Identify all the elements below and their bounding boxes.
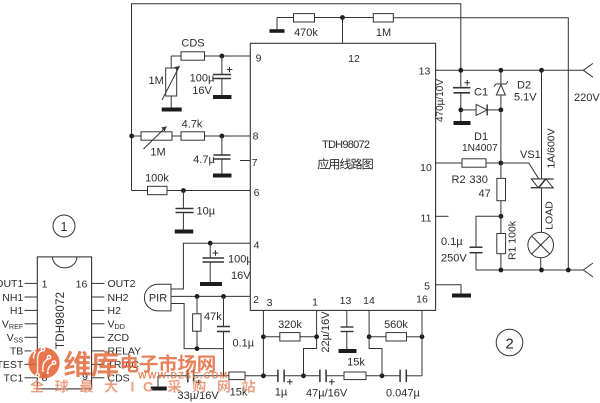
wire rail segment 4 [284, 375, 319, 377]
wire D2 to R2 node [500, 110, 502, 163]
node 0.1u top [221, 294, 226, 299]
svg-text:1A/600V: 1A/600V [546, 128, 558, 168]
potentiometer 1M lower [132, 127, 173, 159]
svg-text:0.1µ: 0.1µ [441, 236, 463, 248]
svg-text:VS1: VS1 [520, 149, 541, 161]
svg-text:6: 6 [254, 187, 260, 199]
svg-text:PIR: PIR [149, 293, 167, 305]
svg-text:330: 330 [470, 174, 488, 186]
node pin1 320k [314, 334, 319, 339]
wire pin 11 stub [436, 215, 449, 217]
svg-text:OUT1: OUT1 [0, 278, 23, 290]
DIP pin 8 TC1 [3, 373, 37, 385]
svg-text:1: 1 [312, 297, 318, 309]
wire triac gate [501, 163, 539, 179]
DIP pin 14 H2 [92, 305, 121, 317]
svg-text:R2: R2 [452, 174, 466, 186]
ground under capacitor 10u [175, 230, 194, 234]
DIP pin 11 RELAY [92, 346, 142, 358]
circled 1 marker [53, 215, 75, 237]
resistor 4.7k [172, 119, 250, 141]
ground under capacitor 100u upper [213, 95, 232, 99]
capacitor C1 470u/10V [435, 79, 488, 122]
node pin14 560k [367, 334, 372, 339]
svg-text:47µ/16V: 47µ/16V [306, 388, 348, 400]
wire rail segment 3 [245, 375, 278, 377]
wire pin 13 row [436, 69, 584, 71]
DIP pin 2 NH1 [2, 292, 37, 304]
node triac top [539, 68, 544, 73]
svg-text:5: 5 [424, 281, 430, 293]
svg-text:16: 16 [76, 279, 88, 291]
op-amp U1 TDH98072 application box [250, 43, 435, 310]
wire bottom rail left segment [158, 375, 187, 377]
wire top rail and left rail [132, 4, 461, 191]
resistor 47 [479, 163, 506, 216]
svg-text:15k: 15k [230, 387, 248, 399]
wire pin 16 vertical [421, 310, 423, 375]
potentiometer 1M left [149, 56, 180, 108]
DIP pin 15 NH2 [92, 292, 129, 304]
watermark slogan text [30, 379, 44, 392]
resistor 15k left [229, 372, 248, 399]
svg-text:H1: H1 [10, 305, 24, 317]
watermark weiku text [64, 351, 90, 377]
svg-text:320k: 320k [278, 319, 302, 331]
svg-text:47k: 47k [204, 311, 222, 323]
resistor R1 100k [497, 216, 519, 270]
svg-text:16V: 16V [192, 85, 212, 97]
DIP pin 12 ZCD [92, 332, 130, 344]
svg-text:3: 3 [267, 297, 273, 309]
node 47 bottom [499, 214, 504, 219]
svg-text:CDS: CDS [181, 38, 204, 50]
triac VS1 1A/600V [520, 70, 558, 232]
node left rail pin8 [129, 134, 134, 139]
svg-text:I: I [131, 379, 135, 395]
node R2 right [499, 161, 504, 166]
resistor R2 330 [436, 159, 501, 186]
node 47k bottom [195, 346, 200, 351]
svg-text:9: 9 [256, 53, 262, 65]
connector DIP TDH98072 body [37, 257, 91, 389]
svg-text:1M: 1M [149, 75, 164, 87]
DIP pin 7 TEST [0, 359, 37, 371]
svg-text:TDH98072: TDH98072 [55, 292, 67, 349]
wire rail segment 2 [194, 375, 229, 377]
node pin4 junction [208, 241, 213, 246]
svg-text:TC1: TC1 [3, 373, 23, 385]
svg-text:10: 10 [420, 162, 432, 174]
wire pin 3 vertical [262, 310, 264, 375]
wire pin 4 row [171, 243, 250, 289]
DIP pin 9 CDS [92, 373, 130, 385]
svg-text:TEST: TEST [0, 359, 24, 371]
watermark logo [28, 347, 59, 378]
svg-text:14: 14 [363, 295, 375, 307]
svg-text:560k: 560k [384, 319, 408, 331]
svg-text:NH2: NH2 [108, 292, 129, 304]
terminal arrow 220V bottom [583, 263, 593, 277]
wire rail segment 5 [326, 375, 344, 377]
DIP pin 5 Vss [7, 332, 38, 345]
diode D1 1N4007 [461, 104, 501, 154]
svg-text:1N4007: 1N4007 [462, 143, 498, 154]
node C1 top [458, 68, 463, 73]
svg-text:16V: 16V [231, 270, 251, 282]
resistor 100k left [132, 173, 251, 195]
svg-text:8: 8 [253, 131, 259, 143]
node pin8 junction [220, 134, 225, 139]
wire rail segment 7 [407, 375, 422, 377]
svg-text:47: 47 [479, 188, 491, 200]
wire bottom 220V rail [476, 269, 583, 271]
node pin3 rail [261, 373, 266, 378]
node D1 left [458, 108, 463, 113]
svg-text:4: 4 [254, 240, 260, 252]
svg-text:470µ/10V: 470µ/10V [435, 79, 446, 122]
svg-text:ZCD: ZCD [108, 332, 130, 344]
resistor 560k [369, 319, 422, 341]
wire 1M to right vertical rail [393, 18, 568, 270]
capacitor 100u/16V lower [203, 243, 254, 282]
wire PIR ground branch [171, 304, 224, 349]
svg-text:13: 13 [340, 295, 352, 307]
svg-text:470k: 470k [294, 27, 318, 39]
capacitor 4.7u [193, 136, 230, 174]
resistor 15k mid [344, 357, 366, 380]
wire pin 5 to ground [436, 285, 461, 294]
wire pin 12 drop [342, 18, 344, 44]
node lamp bottom [539, 268, 544, 273]
svg-text:C: C [143, 379, 153, 395]
svg-text:NH1: NH1 [2, 292, 23, 304]
capacitor 33u/16V [178, 370, 220, 402]
svg-text:OUT2: OUT2 [108, 278, 136, 290]
capacitor 22u/16V [320, 310, 357, 352]
svg-text:22µ/16V: 22µ/16V [320, 311, 332, 353]
svg-text:7: 7 [252, 157, 258, 169]
capacitor 0.1u/250V [441, 216, 501, 270]
node right rail bottom [566, 268, 571, 273]
svg-text:11: 11 [421, 213, 432, 225]
capacitor 10u [176, 191, 216, 230]
capacitor 0.1u PIR [217, 296, 255, 375]
ground under potentiometer 1M [162, 108, 182, 112]
watermark dianzishichangwang text [122, 354, 139, 372]
svg-text:1: 1 [61, 220, 68, 234]
node 47k top [195, 294, 200, 299]
capacitor 0.047u [386, 370, 421, 400]
ground under 470k [270, 18, 285, 32]
svg-text:C1: C1 [474, 87, 488, 99]
wire pin 1 vertical [316, 310, 318, 336]
DIP pin 16 OUT2 [92, 278, 136, 290]
svg-text:100µ: 100µ [190, 73, 215, 85]
node pin9 junction [220, 54, 225, 59]
svg-text:15k: 15k [347, 357, 365, 369]
capacitor 47u/16V [306, 370, 348, 400]
svg-text:H2: H2 [108, 305, 122, 317]
svg-text:16: 16 [416, 294, 428, 306]
ground under C1 [454, 121, 471, 125]
ground bottom-left [151, 376, 167, 389]
node pin12 junction [340, 15, 345, 20]
svg-text:220V: 220V [574, 92, 600, 104]
DIP pin 3 H1 [10, 305, 37, 317]
svg-text:1M: 1M [376, 27, 391, 39]
svg-text:LOAD: LOAD [544, 201, 556, 230]
svg-text:4.7µ: 4.7µ [193, 154, 215, 166]
wire pin 7 stub [240, 160, 250, 162]
svg-text:13: 13 [419, 66, 431, 78]
svg-text:TB: TB [10, 346, 23, 358]
capacitor 1u [275, 370, 293, 399]
wire PIR out to pin 2 [171, 295, 250, 297]
DIP pin 1 OUT1 [0, 278, 37, 290]
svg-text:1: 1 [42, 279, 48, 291]
zener D2 5.1V [494, 70, 537, 110]
node pin3 320k [261, 334, 266, 339]
svg-text:D1: D1 [474, 131, 488, 143]
DIP pin 4 VREF [2, 319, 37, 332]
photoresistor CDS [171, 38, 250, 61]
node pin16 560k [420, 334, 425, 339]
wire rail segment 6 [366, 375, 400, 377]
wire pin1 jog to rail [304, 337, 317, 376]
svg-text:2: 2 [253, 294, 259, 306]
lamp LOAD [528, 201, 556, 270]
svg-text:100µ: 100µ [228, 254, 253, 266]
svg-text:1µ: 1µ [275, 387, 288, 399]
svg-text:0.047µ: 0.047µ [386, 388, 421, 400]
svg-text:5.1V: 5.1V [514, 92, 537, 104]
node R1 bottom [499, 268, 504, 273]
PIR sensor [144, 284, 171, 311]
wire pin 14 vertical [368, 310, 370, 336]
svg-text:TDH98072: TDH98072 [322, 139, 370, 151]
svg-text:0.1µ: 0.1µ [233, 338, 255, 350]
resistor 320k [263, 319, 316, 341]
node pin6 junction [181, 188, 186, 193]
wire pin14 jog to rail [369, 337, 382, 376]
node pin14 rail [380, 373, 385, 378]
svg-text:2: 2 [505, 336, 513, 353]
ground under capacitor 100u lower [200, 282, 222, 286]
svg-text:10µ: 10µ [197, 206, 216, 218]
DIP pin 6 TB [10, 346, 37, 358]
node D2 top [499, 68, 504, 73]
svg-text:12: 12 [348, 53, 360, 65]
ground under capacitor 4.7u [213, 174, 232, 178]
circled 2 marker [496, 329, 523, 356]
node pin1 rail [301, 373, 306, 378]
svg-text:R1 100k: R1 100k [507, 220, 519, 260]
capacitor 100u/16V upper [190, 56, 233, 97]
node D1 right [499, 108, 504, 113]
DIP pin 10 TRIAC [92, 359, 140, 371]
DIP pin 13 VDD [92, 319, 125, 332]
resistor 47k [193, 296, 223, 348]
svg-text:4.7k: 4.7k [182, 119, 203, 131]
terminal arrow 220V top [583, 63, 593, 77]
svg-text:100k: 100k [145, 173, 169, 185]
ground pin 5 [452, 294, 471, 298]
resistor 470k [277, 14, 343, 39]
svg-text:1M: 1M [150, 147, 165, 159]
svg-text:250V: 250V [441, 253, 467, 265]
svg-text:D2: D2 [517, 80, 531, 92]
resistor 1M top [343, 14, 394, 39]
